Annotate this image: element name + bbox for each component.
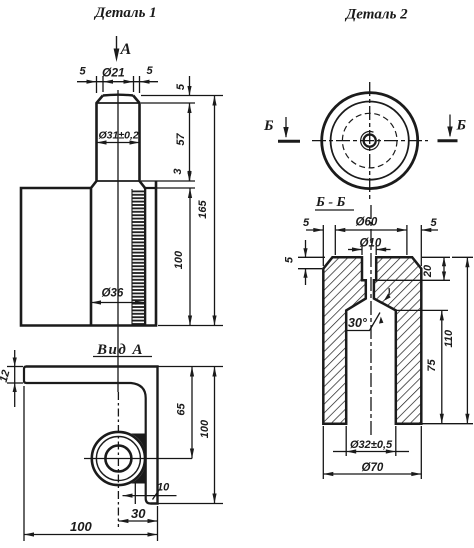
dimension 3	[172, 168, 192, 181]
svg-text:100: 100	[70, 519, 92, 534]
svg-text:Ø36: Ø36	[102, 288, 124, 300]
svg-text:30°: 30°	[348, 316, 368, 330]
svg-text:10: 10	[157, 482, 170, 494]
title Деталь 2	[344, 7, 408, 23]
svg-text:Вид А: Вид А	[96, 342, 144, 358]
dimension 165	[197, 96, 217, 326]
svg-text:30: 30	[131, 506, 146, 521]
dimension 100 right viewA	[158, 367, 223, 504]
hub circles	[92, 432, 145, 485]
knurled band on shaft	[132, 189, 144, 325]
svg-text:Ø60: Ø60	[356, 217, 378, 229]
svg-text:100: 100	[199, 419, 211, 438]
svg-text:Ø31±0,2: Ø31±0,2	[99, 130, 139, 142]
dimension Ø31±0.2	[97, 130, 140, 145]
extension lines right side	[141, 96, 223, 326]
centerlines view A	[84, 392, 192, 527]
pin outline	[91, 95, 145, 326]
dimension 110	[422, 257, 473, 423]
svg-text:Б: Б	[456, 118, 467, 134]
dimension 75	[396, 310, 448, 423]
dimension Ø10	[348, 238, 391, 256]
svg-text:Б - Б: Б - Б	[315, 195, 346, 210]
svg-text:5: 5	[431, 217, 438, 229]
svg-text:5: 5	[303, 217, 310, 229]
svg-text:5: 5	[284, 256, 296, 263]
dimension 20	[377, 257, 450, 280]
svg-text:3: 3	[172, 168, 184, 174]
dimension Ø70	[323, 426, 421, 479]
svg-text:Ø10: Ø10	[360, 238, 382, 250]
svg-text:165: 165	[197, 199, 209, 218]
weld fill	[131, 434, 146, 484]
plate outline front view	[21, 181, 156, 326]
title Деталь 1	[93, 5, 157, 21]
title Б-Б	[315, 195, 354, 210]
dimension 12	[0, 350, 23, 407]
section material right	[374, 257, 421, 423]
section marker Б right	[438, 115, 467, 141]
view arrow A	[114, 36, 132, 62]
svg-text:Ø21: Ø21	[102, 66, 125, 80]
title Вид А	[93, 342, 152, 358]
svg-text:57: 57	[175, 133, 187, 146]
svg-text:5: 5	[147, 65, 154, 77]
dimension 57	[141, 103, 195, 181]
svg-text:Деталь 2: Деталь 2	[344, 7, 408, 23]
centerlines part2	[312, 82, 428, 199]
dimension 65	[176, 367, 195, 459]
svg-text:Деталь 1: Деталь 1	[93, 5, 157, 21]
svg-text:5: 5	[80, 66, 87, 78]
svg-text:100: 100	[173, 250, 185, 269]
svg-text:5: 5	[175, 83, 187, 90]
dimension 30 degrees	[347, 288, 391, 331]
dimension 30	[118, 506, 157, 523]
svg-text:Ø32±0,5: Ø32±0,5	[350, 439, 393, 451]
svg-text:12: 12	[0, 369, 12, 384]
svg-text:20: 20	[422, 264, 434, 278]
dimension 5 (cap height)	[175, 76, 192, 96]
section marker Б left	[263, 117, 300, 141]
L-bracket outline	[24, 367, 158, 504]
svg-text:Ø70: Ø70	[362, 462, 384, 474]
dimension 5 Ø60 5 top	[303, 217, 438, 267]
svg-text:110: 110	[443, 329, 455, 347]
dimension Ø32±0.5	[333, 426, 409, 456]
dimension Ø36	[91, 288, 145, 305]
dimension 5 / Ø21 / 5 top	[77, 65, 158, 93]
svg-text:Б: Б	[263, 118, 274, 134]
svg-text:А: А	[120, 41, 132, 58]
dimension 5 chamfer left	[284, 240, 326, 285]
centerline of pin	[117, 90, 119, 392]
svg-text:65: 65	[176, 403, 188, 416]
dimension 10 leg	[123, 482, 177, 505]
section centerline	[370, 205, 372, 436]
dimension 100 bottom	[24, 386, 158, 541]
circles part2	[322, 93, 418, 189]
svg-text:75: 75	[426, 359, 438, 372]
dimension 100 shaft	[173, 188, 192, 326]
section material left	[323, 257, 366, 423]
